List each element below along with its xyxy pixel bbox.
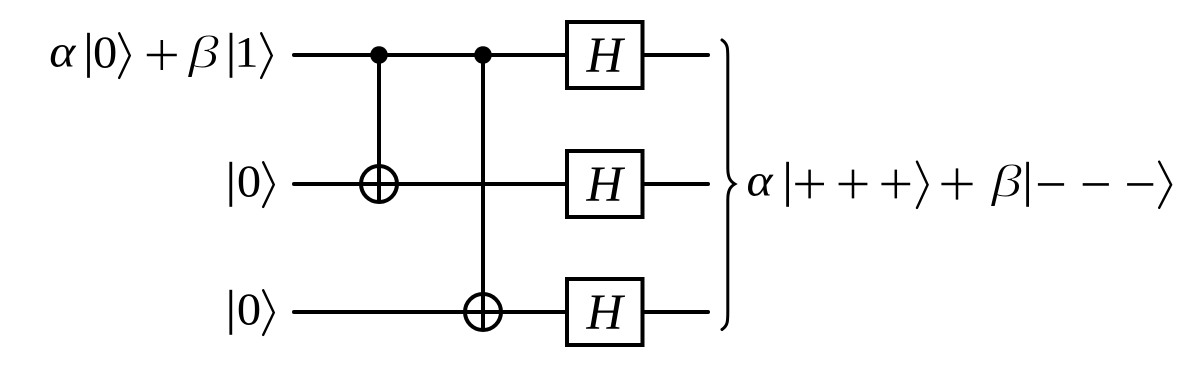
svg-text:1: 1 (234, 28, 258, 76)
svg-text:α: α (49, 26, 76, 77)
svg-text:H: H (586, 156, 626, 212)
svg-text:0: 0 (93, 28, 117, 79)
svg-text:β: β (187, 26, 220, 78)
svg-text:H: H (586, 284, 626, 340)
svg-text:β: β (990, 155, 1023, 207)
svg-text:0: 0 (237, 157, 261, 208)
svg-text:0: 0 (237, 285, 261, 336)
svg-text:H: H (586, 27, 626, 83)
svg-text:α: α (747, 155, 774, 206)
